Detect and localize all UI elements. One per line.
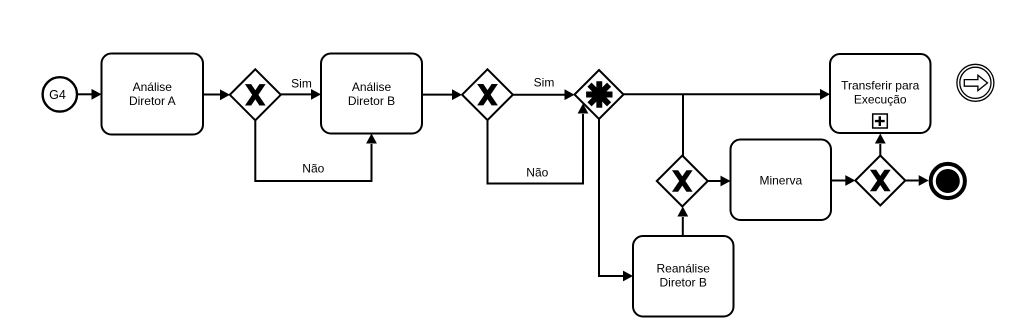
wire gateway G2 loop Não to complex gateway (488, 104, 589, 184)
svg-text:Diretor A: Diretor A (129, 94, 176, 108)
wire gateway G2 to complex gateway (Sim) (513, 89, 575, 100)
exclusive gateway G1 (230, 69, 281, 120)
task Reanálise Diretor B (633, 236, 734, 317)
svg-text:Não: Não (526, 166, 548, 180)
wire task Análise Diretor B to gateway G2 (422, 89, 462, 100)
wire gateway G4 up to task Transferir para Execução (875, 134, 886, 156)
wire gateway G1 loop Não to bottom of task Análise Diretor B (255, 120, 377, 181)
task Análise Diretor A (102, 54, 204, 135)
task Minerva (731, 140, 832, 221)
wire task Reanálise Diretor B to gateway G3 (677, 207, 688, 236)
svg-text:Reanálise: Reanálise (657, 262, 711, 276)
wire gateway G4 to terminate end event (905, 175, 928, 186)
subprocess plus marker (873, 114, 888, 128)
wire task Análise Diretor A to gateway G1 (203, 89, 230, 100)
exclusive gateway G4 (855, 156, 905, 206)
wire complex gateway down to task Reanálise Diretor B (599, 119, 633, 281)
svg-text:Execução: Execução (854, 93, 907, 107)
svg-text:Transferir para: Transferir para (841, 79, 920, 93)
wire start G4 to task Análise Diretor A (78, 89, 102, 100)
link intermediate event (arrow in double circle) (957, 64, 994, 101)
task Análise Diretor B (321, 54, 422, 134)
terminate end event (931, 164, 965, 198)
svg-text:Diretor B: Diretor B (660, 276, 707, 290)
wire complex gateway to task Transferir para Execução (624, 89, 831, 100)
svg-text:Análise: Análise (133, 80, 173, 94)
exclusive gateway G3 (657, 156, 708, 207)
svg-text:G4: G4 (49, 88, 66, 102)
svg-text:Sim: Sim (534, 76, 555, 90)
wire gateway G3 to task Minerva (708, 176, 731, 187)
svg-text:Não: Não (302, 162, 324, 176)
wire task Minerva to gateway G4 (831, 175, 855, 186)
start event G4 (43, 77, 77, 111)
subprocess task Transferir para Execução (830, 54, 931, 133)
svg-text:Diretor B: Diretor B (348, 94, 395, 108)
wire gateway G1 to task Análise Diretor B (Sim) (281, 89, 321, 100)
svg-text:Sim: Sim (291, 77, 312, 91)
wire branch from flow down to gateway G3 (682, 94, 684, 155)
svg-text:Análise: Análise (352, 80, 392, 94)
exclusive gateway G2 (462, 69, 513, 120)
complex gateway (asterisk) (575, 70, 624, 119)
svg-text:Minerva: Minerva (759, 174, 802, 188)
